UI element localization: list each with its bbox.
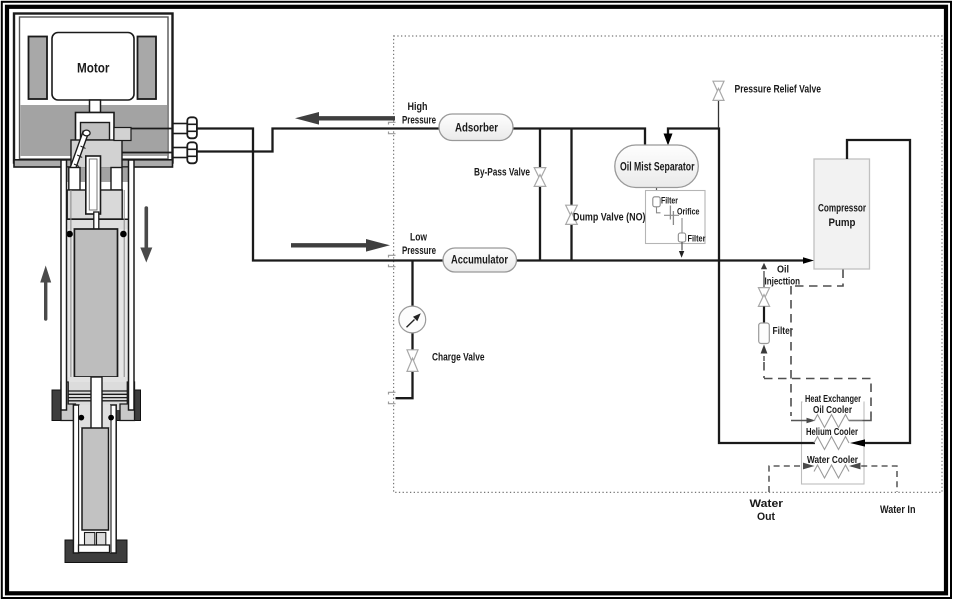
shell step right: [120, 382, 135, 421]
below piston region: [67, 377, 129, 390]
flange interior: [65, 382, 130, 410]
dump valve: [566, 205, 578, 217]
high pressure arrow: [316, 116, 395, 120]
motor shaft: [90, 100, 101, 113]
HP line from lower fitting to adsorber and corner down: [197, 129, 645, 152]
svg-text:Accumulator: Accumulator: [451, 255, 508, 267]
crankcase housing: [76, 113, 115, 141]
seal rings lines left: [65, 391, 130, 401]
gap column left: [67, 229, 75, 390]
svg-text:Low: Low: [410, 232, 427, 244]
o-rings stage2: [78, 415, 84, 421]
boundary crossing marks HP: [389, 122, 396, 124]
svg-text:Pressure: Pressure: [402, 245, 436, 257]
svg-text:Pressure Relief Valve: Pressure Relief Valve: [735, 84, 822, 96]
stage2 cylinder wall right: [111, 405, 116, 553]
crankcase gray band: [21, 105, 168, 156]
o-ring right: [120, 231, 127, 238]
svg-text:Compressor: Compressor: [818, 203, 867, 215]
water inlet arrow right: [849, 463, 861, 470]
svg-text:Water Cooler: Water Cooler: [807, 455, 858, 466]
oil cooler coil: [814, 415, 849, 428]
charge valve: [407, 350, 418, 363]
separator inlet line from HP corner handled above; separator bottom stub: [656, 186, 658, 197]
boundary crossing marks LP: [389, 255, 396, 257]
svg-text:High: High: [408, 101, 428, 113]
svg-text:Pressure: Pressure: [402, 115, 436, 127]
LP line from upper fitting to compressor: [197, 129, 806, 261]
water cooler coil: [814, 465, 849, 478]
oil cooler inlet arrow: [791, 420, 808, 422]
divider line: [67, 218, 129, 220]
arrow into helium cooler: [850, 439, 865, 446]
low pressure arrow: [291, 243, 369, 247]
flange stage2 dark: [65, 540, 127, 563]
hex fitting 1: [172, 123, 188, 125]
motor enclosure inner wall: [20, 17, 169, 159]
cylinder neck interior bg: [67, 168, 129, 192]
liner line left: [70, 190, 72, 390]
fitting line upper (inside enclosure): [131, 128, 172, 130]
water dashed lines: [769, 466, 897, 492]
shell step left: [61, 382, 76, 421]
stage2 bottom cap: [79, 545, 110, 553]
orifice: [664, 214, 679, 216]
compressor discharge to cooler: [847, 140, 910, 443]
filter 2: [678, 233, 685, 242]
svg-text:Filter: Filter: [688, 234, 706, 244]
stage2 interior: [79, 406, 110, 553]
down arrow: [145, 208, 149, 248]
stator block right: [138, 37, 157, 100]
yoke right step: [114, 128, 131, 141]
dashed oil lines: [764, 270, 871, 418]
svg-text:Dump Valve (NO): Dump Valve (NO): [573, 212, 646, 224]
flange stage1 dark collar: [52, 390, 141, 421]
arrow up into filter: [761, 345, 768, 354]
adsorber: [439, 114, 513, 141]
motor enclosure outer wall: [14, 14, 173, 163]
svg-text:Pump: Pump: [829, 217, 856, 229]
enclosure bottom lip: [14, 160, 173, 167]
gap column right: [118, 229, 129, 390]
o-ring left: [66, 231, 73, 238]
piston tube: [86, 156, 101, 214]
dump branch line: [570, 129, 572, 260]
svg-text:Filter: Filter: [773, 326, 794, 337]
LP arrowhead into compressor: [803, 257, 814, 264]
svg-text:By-Pass Valve: By-Pass Valve: [474, 167, 530, 179]
displacer rod small: [94, 212, 99, 230]
stator block left: [29, 37, 48, 100]
helium cooler coil: [814, 437, 849, 450]
piston rod stage2: [91, 377, 102, 429]
yoke body: [71, 140, 122, 168]
by-pass branch line: [539, 129, 541, 260]
motor body: [52, 33, 134, 101]
filter 1: [656, 197, 658, 198]
stage2 cylinder wall left: [73, 405, 78, 553]
oil cooler outlet stub: [849, 420, 863, 422]
cylinder wall left: [61, 160, 67, 410]
svg-text:Injecttion: Injecttion: [765, 277, 801, 288]
pressure relief valve: [713, 81, 724, 93]
heat exchanger label bg: [803, 391, 864, 403]
svg-text:Charge Valve: Charge Valve: [432, 352, 485, 364]
svg-text:Oil Cooler: Oil Cooler: [813, 405, 852, 416]
svg-text:Heat Exchanger: Heat Exchanger: [805, 394, 861, 405]
accumulator: [443, 248, 517, 272]
crank block: [81, 123, 110, 141]
oil injection valve: [758, 288, 769, 300]
orifice out: [681, 218, 683, 233]
by-pass valve: [534, 168, 546, 180]
displacer stage2: [82, 428, 109, 530]
svg-text:Water In: Water In: [880, 504, 916, 516]
svg-text:Out: Out: [757, 511, 775, 523]
seal gland left: [69, 168, 80, 191]
svg-text:Filter: Filter: [661, 196, 678, 206]
crank pin: [83, 130, 90, 136]
oil mist separator: [615, 145, 699, 188]
connecting rod: [68, 131, 88, 175]
svg-text:Adsorber: Adsorber: [455, 123, 498, 135]
svg-text:Water: Water: [750, 498, 784, 510]
water inlet arrow left: [803, 463, 815, 470]
oil injection arrow into LP: [761, 263, 767, 270]
cylinder wall right: [129, 160, 135, 410]
helium return line: cooler to separator: [668, 129, 815, 444]
svg-text:Oil Mist Separator: Oil Mist Separator: [620, 162, 695, 174]
stage2 lower blocks: [85, 533, 95, 546]
seal gland right: [111, 168, 122, 191]
boundary crossing marks charge: [389, 392, 396, 394]
fitting line lower (inside enclosure): [122, 152, 172, 154]
oil filter: [759, 323, 770, 344]
crosshead block: [67, 190, 122, 219]
pressure relief stub: [718, 101, 720, 129]
hex fitting 2: [172, 147, 188, 149]
arrow into separator: [664, 134, 673, 146]
liner line right: [123, 190, 125, 390]
up arrow: [44, 282, 47, 319]
gauge: [399, 306, 426, 333]
svg-text:Orifice: Orifice: [677, 207, 700, 217]
svg-text:Motor: Motor: [77, 61, 110, 76]
displacer stage1: [74, 229, 117, 377]
upper gas band: [67, 220, 129, 229]
charge line with gauge: [396, 262, 413, 399]
svg-text:Oil: Oil: [777, 265, 789, 276]
